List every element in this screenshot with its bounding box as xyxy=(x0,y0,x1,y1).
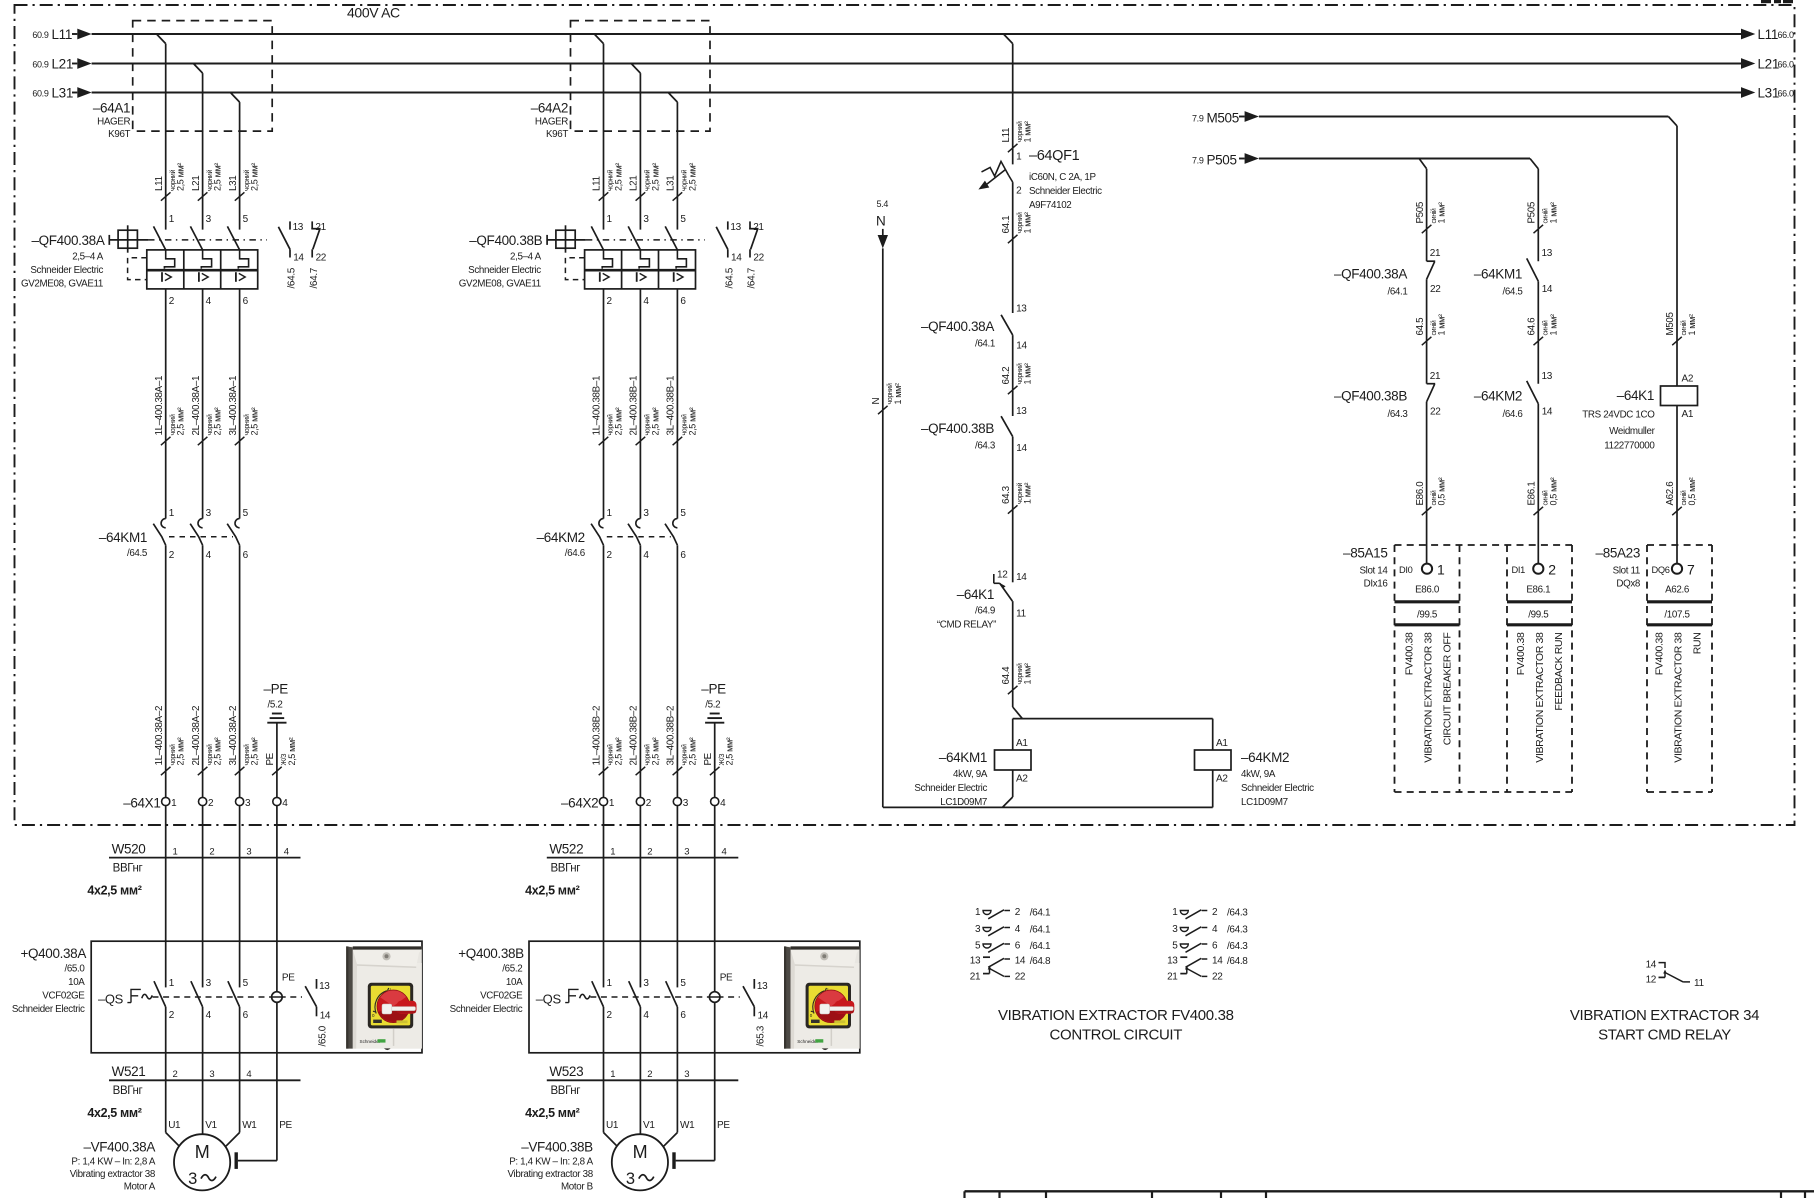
terminal 64X1:3 xyxy=(236,797,244,805)
wire tap branch B xyxy=(594,34,603,44)
svg-text:L11: L11 xyxy=(154,176,165,191)
svg-text:P: 1,4 KW – In: 2,8 A: P: 1,4 KW – In: 2,8 A xyxy=(71,1157,155,1168)
svg-text:FV400.38: FV400.38 xyxy=(1515,632,1527,675)
magnetic trip element pole 2 xyxy=(198,272,200,282)
svg-text:14: 14 xyxy=(1016,341,1027,352)
svg-text:14: 14 xyxy=(731,253,742,264)
local isolator box Q400.38B xyxy=(529,941,860,1053)
svg-text:1: 1 xyxy=(169,214,175,225)
svg-text:4x2,5 мм²: 4x2,5 мм² xyxy=(87,884,141,898)
motor frame ground bar xyxy=(672,1152,675,1169)
svg-text:CONTROL CIRCUIT: CONTROL CIRCUIT xyxy=(1050,1027,1183,1044)
svg-text:2: 2 xyxy=(1212,907,1218,918)
ground PE symbol xyxy=(272,713,282,715)
svg-text:6: 6 xyxy=(243,296,249,307)
svg-text:HAGER: HAGER xyxy=(535,117,568,128)
svg-text:START CMD RELAY: START CMD RELAY xyxy=(1598,1027,1731,1044)
svg-text:13: 13 xyxy=(730,222,741,233)
svg-text:L11: L11 xyxy=(1001,128,1012,143)
svg-text:13: 13 xyxy=(1542,371,1553,382)
wire bus L31 xyxy=(72,92,77,94)
svg-text:4: 4 xyxy=(206,550,212,561)
svg-text:5: 5 xyxy=(680,978,686,989)
svg-text:CIRCUIT BREAKER OFF: CIRCUIT BREAKER OFF xyxy=(1442,633,1454,746)
svg-text:3: 3 xyxy=(245,798,251,809)
svg-text:W1: W1 xyxy=(242,1120,257,1131)
wire label 64.2 xyxy=(1008,386,1018,394)
contactor linkage (dashed) xyxy=(169,536,233,538)
svg-text:4: 4 xyxy=(284,847,289,858)
svg-text:L31: L31 xyxy=(228,176,239,191)
svg-text:22: 22 xyxy=(1212,972,1223,983)
svg-text:L21: L21 xyxy=(191,176,202,191)
magnetic trip element pole 1 xyxy=(161,272,163,282)
svg-text:W521: W521 xyxy=(112,1064,146,1079)
wire label L21 2,5mm2 xyxy=(198,192,208,200)
svg-text:Schneider Electric: Schneider Electric xyxy=(468,265,541,276)
breaker QF400.38A thermal/magnetic trip box xyxy=(147,250,258,289)
svg-text:66.0: 66.0 xyxy=(1778,89,1794,99)
svg-text:6: 6 xyxy=(243,550,249,561)
svg-text:/64.3: /64.3 xyxy=(1387,409,1408,420)
svg-text:Schneider: Schneider xyxy=(360,1039,381,1044)
svg-text:21: 21 xyxy=(753,222,764,233)
svg-text:3: 3 xyxy=(206,214,212,225)
svg-text:2: 2 xyxy=(607,1010,613,1021)
svg-text:–64KM1: –64KM1 xyxy=(99,530,147,545)
isolator QS aux contact 13-14 xyxy=(316,979,318,989)
svg-text:/64.9: /64.9 xyxy=(975,606,995,617)
wire coil feed rail xyxy=(1013,707,1023,719)
svg-text:PE: PE xyxy=(265,752,276,765)
motor frame ground bar xyxy=(234,1152,237,1169)
svg-text:/64.5: /64.5 xyxy=(1502,287,1523,298)
svg-text:–QF400.38B: –QF400.38B xyxy=(921,421,994,436)
svg-text:+Q400.38A: +Q400.38A xyxy=(20,946,86,961)
PLC channel DI1 xyxy=(1533,564,1543,574)
wire tap branch A xyxy=(157,34,166,44)
svg-text:4: 4 xyxy=(720,798,726,809)
magnetic trip element pole 3 xyxy=(235,272,237,282)
svg-text:U1: U1 xyxy=(606,1120,619,1131)
svg-text:0,5 мм²: 0,5 мм² xyxy=(1687,477,1697,505)
svg-text:14: 14 xyxy=(1016,443,1027,454)
wire label 1L-400.38A-1 xyxy=(161,437,171,445)
svg-text:A1: A1 xyxy=(1016,738,1028,749)
svg-text:6: 6 xyxy=(680,550,686,561)
svg-text:VCF02GE: VCF02GE xyxy=(480,991,523,1002)
wire label N xyxy=(878,406,888,414)
wire label 3L-400.38B-1 xyxy=(673,437,683,445)
svg-text:1: 1 xyxy=(1437,562,1445,578)
svg-text:60.9: 60.9 xyxy=(32,89,48,99)
svg-text:3: 3 xyxy=(1172,924,1178,935)
wire label L31 2,5mm2 xyxy=(235,192,245,200)
svg-text:1L–400.38B–2: 1L–400.38B–2 xyxy=(592,706,603,766)
svg-text:Slot 14: Slot 14 xyxy=(1359,566,1388,577)
terminal 64X2:2 xyxy=(636,797,644,805)
svg-text:/64.3: /64.3 xyxy=(1227,925,1248,936)
svg-text:M505: M505 xyxy=(1207,111,1239,126)
svg-text:ВВГнг: ВВГнг xyxy=(550,863,580,875)
svg-text:60.9: 60.9 xyxy=(32,60,48,70)
svg-text:3: 3 xyxy=(683,798,689,809)
wire to motor W1 xyxy=(676,1080,678,1132)
wire bus L11 xyxy=(72,33,77,35)
wire label 1L-400.38B-1 xyxy=(599,437,609,445)
PLC channel DQ6 xyxy=(1672,564,1682,574)
wire label L31 2,5mm2 xyxy=(673,192,683,200)
breaker QF400.38A aux contact 21-22 xyxy=(311,221,313,228)
dashed trip linkage bracket xyxy=(128,258,147,280)
wire bus L21 xyxy=(72,63,77,65)
svg-text:2: 2 xyxy=(169,1010,175,1021)
svg-text:0,5 мм²: 0,5 мм² xyxy=(1437,477,1447,505)
wire label 2L-400.38B-2 xyxy=(636,767,646,775)
isolator product photo xyxy=(346,946,422,1050)
svg-text:1 мм²: 1 мм² xyxy=(1023,363,1033,384)
svg-text:/64.5: /64.5 xyxy=(724,267,735,288)
svg-text:4: 4 xyxy=(1015,924,1021,935)
svg-text:3: 3 xyxy=(684,847,689,858)
svg-text:1: 1 xyxy=(1016,152,1022,163)
svg-text:0,5 мм²: 0,5 мм² xyxy=(1548,477,1558,505)
isolator QS aux contact 13-14 xyxy=(753,979,755,989)
svg-text:4: 4 xyxy=(722,847,727,858)
svg-text:A2: A2 xyxy=(1216,774,1228,785)
svg-text:–64QF1: –64QF1 xyxy=(1029,148,1080,164)
svg-text:14: 14 xyxy=(758,1011,769,1022)
breaker mechanical linkage (dashed) xyxy=(148,239,267,241)
isolator QS handle symbol xyxy=(127,989,140,1002)
svg-text:5: 5 xyxy=(680,214,686,225)
wire tap branch B xyxy=(631,64,640,74)
svg-text:2,5–4 A: 2,5–4 A xyxy=(510,252,542,263)
svg-text:VIBRATION EXTRACTOR 38: VIBRATION EXTRACTOR 38 xyxy=(1423,632,1435,763)
svg-text:3L–400.38A–1: 3L–400.38A–1 xyxy=(228,376,239,436)
svg-text:6: 6 xyxy=(243,1010,249,1021)
wire label 2L-400.38A-1 xyxy=(198,437,208,445)
svg-text:2,5 мм²: 2,5 мм² xyxy=(614,737,624,765)
svg-text:PE: PE xyxy=(279,1120,292,1131)
svg-text:1: 1 xyxy=(607,214,613,225)
svg-text:Schneider Electric: Schneider Electric xyxy=(914,783,987,794)
svg-text:1: 1 xyxy=(610,847,615,858)
svg-text:1 мм²: 1 мм² xyxy=(1687,314,1697,335)
svg-text:/64.7: /64.7 xyxy=(747,267,758,288)
PLC channel DI0 xyxy=(1422,564,1432,574)
svg-text:2: 2 xyxy=(1016,186,1022,197)
svg-text:2: 2 xyxy=(209,847,214,858)
svg-text:–64KM2: –64KM2 xyxy=(1241,750,1289,765)
svg-text:13: 13 xyxy=(1167,956,1178,967)
svg-text:P: 1,4 KW – In: 2,8 A: P: 1,4 KW – In: 2,8 A xyxy=(509,1157,593,1168)
svg-text:13: 13 xyxy=(1016,304,1027,315)
wire label 64.3 xyxy=(1008,505,1018,513)
breaker QF400.38B aux contact 21-22 xyxy=(749,221,751,228)
svg-text:2,5 мм²: 2,5 мм² xyxy=(650,163,660,191)
svg-text:60.9: 60.9 xyxy=(32,30,48,40)
svg-text:+Q400.38B: +Q400.38B xyxy=(458,946,524,961)
svg-text:/64.8: /64.8 xyxy=(1227,956,1248,967)
svg-text:2,5 мм²: 2,5 мм² xyxy=(614,407,624,435)
svg-text:21: 21 xyxy=(1430,248,1441,259)
svg-text:2,5 мм²: 2,5 мм² xyxy=(687,737,697,765)
svg-text:6: 6 xyxy=(1212,941,1218,952)
svg-text:PE: PE xyxy=(720,973,733,984)
svg-text:/64.1: /64.1 xyxy=(1030,908,1051,919)
thermal overload element pole 2 xyxy=(639,250,649,269)
svg-text:ВВГнг: ВВГнг xyxy=(550,1085,580,1097)
svg-text:M: M xyxy=(195,1142,210,1162)
svg-text:N: N xyxy=(871,398,882,405)
svg-text:VIBRATION EXTRACTOR 34: VIBRATION EXTRACTOR 34 xyxy=(1570,1007,1759,1024)
svg-text:21: 21 xyxy=(1430,371,1441,382)
svg-text:–64A2: –64A2 xyxy=(531,101,568,116)
svg-text:2,5 мм²: 2,5 мм² xyxy=(213,407,223,435)
svg-text:10A: 10A xyxy=(506,977,523,988)
wire P505 xyxy=(1259,158,1530,160)
surge arrester box -64A2 (HAGER K96T) xyxy=(571,21,711,132)
svg-text:2L–400.38A–1: 2L–400.38A–1 xyxy=(191,376,202,436)
svg-text:7: 7 xyxy=(1687,562,1695,578)
svg-text:3L–400.38B–1: 3L–400.38B–1 xyxy=(666,376,677,436)
wire L11 tap to control circuit xyxy=(1004,34,1013,44)
svg-text:A62.6: A62.6 xyxy=(1665,585,1690,596)
svg-text:1: 1 xyxy=(607,508,613,519)
svg-text:/64.7: /64.7 xyxy=(309,267,320,288)
svg-text:6: 6 xyxy=(1015,941,1021,952)
svg-text:1 мм²: 1 мм² xyxy=(1437,314,1447,335)
svg-text:2,5 мм²: 2,5 мм² xyxy=(213,163,223,191)
svg-text:W522: W522 xyxy=(549,842,583,857)
svg-text:2,5 мм²: 2,5 мм² xyxy=(250,737,260,765)
svg-text:1: 1 xyxy=(975,907,981,918)
svg-text:“CMD RELAY”: “CMD RELAY” xyxy=(937,620,996,631)
svg-text:/65.3: /65.3 xyxy=(755,1025,766,1046)
svg-text:2,5–4 A: 2,5–4 A xyxy=(72,252,104,263)
wire label 64.4 xyxy=(1008,686,1018,694)
svg-text:1 мм²: 1 мм² xyxy=(1548,202,1558,223)
svg-text:A1: A1 xyxy=(1216,738,1228,749)
svg-text:DI1: DI1 xyxy=(1512,565,1526,575)
svg-text:Schneider: Schneider xyxy=(797,1039,818,1044)
relay coil branch: M505 to PLC DQ6 xyxy=(1672,337,1682,345)
svg-text:3: 3 xyxy=(643,978,649,989)
svg-text:2: 2 xyxy=(647,847,652,858)
svg-text:2: 2 xyxy=(607,296,613,307)
svg-text:–85A15: –85A15 xyxy=(1343,546,1387,561)
svg-text:FV400.38: FV400.38 xyxy=(1404,632,1416,675)
svg-text:Motor B: Motor B xyxy=(561,1182,594,1193)
svg-text:/99.5: /99.5 xyxy=(1417,610,1438,621)
svg-text:1: 1 xyxy=(609,798,615,809)
svg-text:/65.2: /65.2 xyxy=(502,964,522,975)
svg-text:VIBRATION EXTRACTOR 38: VIBRATION EXTRACTOR 38 xyxy=(1534,632,1546,763)
svg-text:1 мм²: 1 мм² xyxy=(1437,202,1447,223)
svg-text:2,5 мм²: 2,5 мм² xyxy=(250,407,260,435)
dashed trip linkage bracket xyxy=(565,258,584,280)
svg-text:/5.2: /5.2 xyxy=(268,700,283,711)
svg-text:/64.1: /64.1 xyxy=(975,339,995,350)
svg-text:–VF400.38B: –VF400.38B xyxy=(521,1140,593,1155)
svg-text:Schneider Electric: Schneider Electric xyxy=(12,1004,85,1015)
breaker operator handle symbol xyxy=(108,235,110,245)
wire to motor U1 xyxy=(165,1080,167,1132)
svg-text:E86.0: E86.0 xyxy=(1415,481,1426,506)
terminal 64X1:4 xyxy=(273,797,281,805)
svg-text:1 мм²: 1 мм² xyxy=(893,383,903,404)
svg-text:–PE: –PE xyxy=(264,682,289,697)
svg-text:64.2: 64.2 xyxy=(1001,367,1012,385)
svg-text:2,5 мм²: 2,5 мм² xyxy=(650,407,660,435)
svg-text:2L–400.38A–2: 2L–400.38A–2 xyxy=(191,706,202,766)
svg-text:13: 13 xyxy=(293,222,304,233)
svg-text:14: 14 xyxy=(293,253,304,264)
breaker mechanical linkage (dashed) xyxy=(586,239,705,241)
svg-text:6: 6 xyxy=(680,296,686,307)
svg-text:/64.1: /64.1 xyxy=(1030,941,1051,952)
svg-text:L11: L11 xyxy=(52,27,72,42)
svg-text:VIBRATION EXTRACTOR FV400.38: VIBRATION EXTRACTOR FV400.38 xyxy=(998,1007,1234,1024)
wire label L11 2,5mm2 xyxy=(599,192,609,200)
svg-text:13: 13 xyxy=(1016,406,1027,417)
wire tap branch A xyxy=(193,64,202,74)
svg-text:5: 5 xyxy=(243,508,249,519)
wire to motor W1 xyxy=(239,1080,241,1132)
svg-text:1: 1 xyxy=(607,978,613,989)
cable W523 xyxy=(547,1079,739,1081)
svg-text:L21: L21 xyxy=(1758,57,1779,72)
svg-text:2,5 мм²: 2,5 мм² xyxy=(614,163,624,191)
svg-text:4kW, 9A: 4kW, 9A xyxy=(1241,769,1276,780)
svg-text:Weidmuller: Weidmuller xyxy=(1609,426,1655,437)
svg-text:5: 5 xyxy=(1172,941,1178,952)
svg-text:2: 2 xyxy=(647,1069,652,1080)
aux branch 2: KM auxes to PLC DI1 xyxy=(1537,169,1539,261)
svg-text:–64K1: –64K1 xyxy=(957,587,994,602)
svg-text:66.0: 66.0 xyxy=(1778,60,1794,70)
svg-text:2,5 мм²: 2,5 мм² xyxy=(287,737,297,765)
svg-text:–64KM1: –64KM1 xyxy=(1474,267,1522,282)
wire label 1L-400.38B-2 xyxy=(599,767,609,775)
svg-text:Vibrating extractor 38: Vibrating extractor 38 xyxy=(70,1169,156,1180)
svg-text:4: 4 xyxy=(206,296,212,307)
svg-text:W520: W520 xyxy=(112,842,146,857)
svg-text:4: 4 xyxy=(246,1069,251,1080)
svg-text:12: 12 xyxy=(1646,975,1657,986)
PLC module 85A15 (DI) dashed box xyxy=(1395,544,1573,546)
wire N xyxy=(882,248,884,807)
svg-text:ВВГнг: ВВГнг xyxy=(113,863,143,875)
svg-text:/107.5: /107.5 xyxy=(1664,610,1690,621)
svg-text:11: 11 xyxy=(1694,978,1704,989)
svg-text:4kW, 9A: 4kW, 9A xyxy=(953,769,988,780)
svg-text:1: 1 xyxy=(169,508,175,519)
relay contact 64K1 (changeover 11-12-14) xyxy=(1012,565,1014,582)
svg-text:–85A23: –85A23 xyxy=(1596,546,1640,561)
svg-text:3: 3 xyxy=(684,1069,689,1080)
wire label 3L-400.38A-1 xyxy=(235,437,245,445)
svg-text:1: 1 xyxy=(169,978,175,989)
isolator linkage (dashed) xyxy=(153,996,303,998)
wire tap branch B xyxy=(668,93,677,103)
title block top edge xyxy=(965,1190,1814,1192)
svg-text:DQ6: DQ6 xyxy=(1652,565,1670,575)
svg-text:2L–400.38B–1: 2L–400.38B–1 xyxy=(629,376,640,436)
svg-text:7.9: 7.9 xyxy=(1192,114,1204,124)
wire label PE xyxy=(710,767,720,775)
svg-text:4: 4 xyxy=(1212,924,1218,935)
svg-text:3: 3 xyxy=(975,924,981,935)
svg-text:13: 13 xyxy=(757,981,768,992)
svg-text:2: 2 xyxy=(646,798,652,809)
svg-text:L31: L31 xyxy=(666,176,677,191)
svg-text:/65.0: /65.0 xyxy=(318,1025,329,1046)
wire coil return rail to N xyxy=(883,806,1213,808)
svg-text:/5.2: /5.2 xyxy=(705,700,720,711)
breaker QF400.38B thermal/magnetic trip box xyxy=(585,250,696,289)
svg-text:L31: L31 xyxy=(1758,86,1779,101)
svg-text:FV400.38: FV400.38 xyxy=(1654,632,1666,675)
aux branch 1: QF auxes to PLC DI0 xyxy=(1426,169,1428,261)
svg-text:3: 3 xyxy=(643,214,649,225)
svg-text:64.5: 64.5 xyxy=(1415,317,1426,336)
svg-text:4: 4 xyxy=(206,1010,212,1021)
svg-text:V1: V1 xyxy=(205,1120,217,1131)
terminal 64X2:4 xyxy=(711,797,719,805)
svg-text:W523: W523 xyxy=(549,1064,583,1079)
svg-text:14: 14 xyxy=(1646,960,1657,971)
svg-text:21: 21 xyxy=(970,972,981,983)
svg-text:PE: PE xyxy=(282,973,295,984)
svg-text:/64.5: /64.5 xyxy=(127,548,148,559)
PE feed-through terminal xyxy=(714,941,716,1160)
wire PE to motor frame xyxy=(238,1160,277,1162)
svg-text:E86.1: E86.1 xyxy=(1526,585,1550,596)
isolator product photo xyxy=(784,946,860,1050)
svg-text:1L–400.38A–2: 1L–400.38A–2 xyxy=(154,706,165,766)
ground PE symbol xyxy=(710,713,720,715)
svg-text:21: 21 xyxy=(315,222,326,233)
svg-text:/99.5: /99.5 xyxy=(1528,610,1549,621)
svg-text:2,5 мм²: 2,5 мм² xyxy=(687,407,697,435)
svg-text:2,5 мм²: 2,5 мм² xyxy=(687,163,697,191)
svg-text:1 мм²: 1 мм² xyxy=(1023,212,1033,233)
svg-text:2,5 мм²: 2,5 мм² xyxy=(176,407,186,435)
svg-text:E86.1: E86.1 xyxy=(1527,482,1538,506)
svg-text:3L–400.38B–2: 3L–400.38B–2 xyxy=(666,706,677,766)
svg-text:4x2,5 мм²: 4x2,5 мм² xyxy=(87,1106,141,1120)
wire label L11 2,5mm2 xyxy=(161,192,171,200)
svg-text:–QF400.38A: –QF400.38A xyxy=(921,319,994,334)
svg-text:–64K1: –64K1 xyxy=(1617,388,1654,403)
svg-text:2,5 мм²: 2,5 мм² xyxy=(650,737,660,765)
magnetic trip element pole 2 xyxy=(636,272,638,282)
svg-text:1 мм²: 1 мм² xyxy=(1023,121,1033,142)
svg-text:Motor A: Motor A xyxy=(124,1182,156,1193)
svg-text:–QF400.38A: –QF400.38A xyxy=(31,233,104,248)
svg-text:7.9: 7.9 xyxy=(1192,156,1204,166)
svg-text:M505: M505 xyxy=(1665,311,1676,335)
svg-text:GV2ME08, GVAE11: GV2ME08, GVAE11 xyxy=(459,279,541,290)
svg-text:4x2,5 мм²: 4x2,5 мм² xyxy=(525,1106,579,1120)
breaker QF400.38B aux contact 13-14 xyxy=(727,221,729,229)
svg-text:2: 2 xyxy=(607,550,613,561)
svg-text:N: N xyxy=(876,214,885,229)
page border (installation boundary) xyxy=(15,5,1795,825)
svg-text:12: 12 xyxy=(997,570,1008,581)
